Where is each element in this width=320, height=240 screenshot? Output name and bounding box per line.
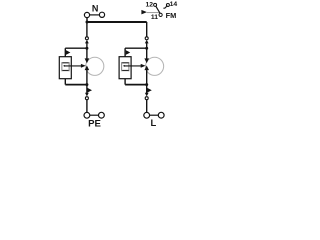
svg-text:FM: FM xyxy=(166,11,177,20)
svg-text:14: 14 xyxy=(170,1,178,8)
svg-text:12: 12 xyxy=(146,1,154,8)
svg-text:PE: PE xyxy=(88,118,101,129)
svg-text:L: L xyxy=(151,117,157,128)
svg-text:N: N xyxy=(92,4,99,14)
svg-text:11: 11 xyxy=(151,14,158,21)
